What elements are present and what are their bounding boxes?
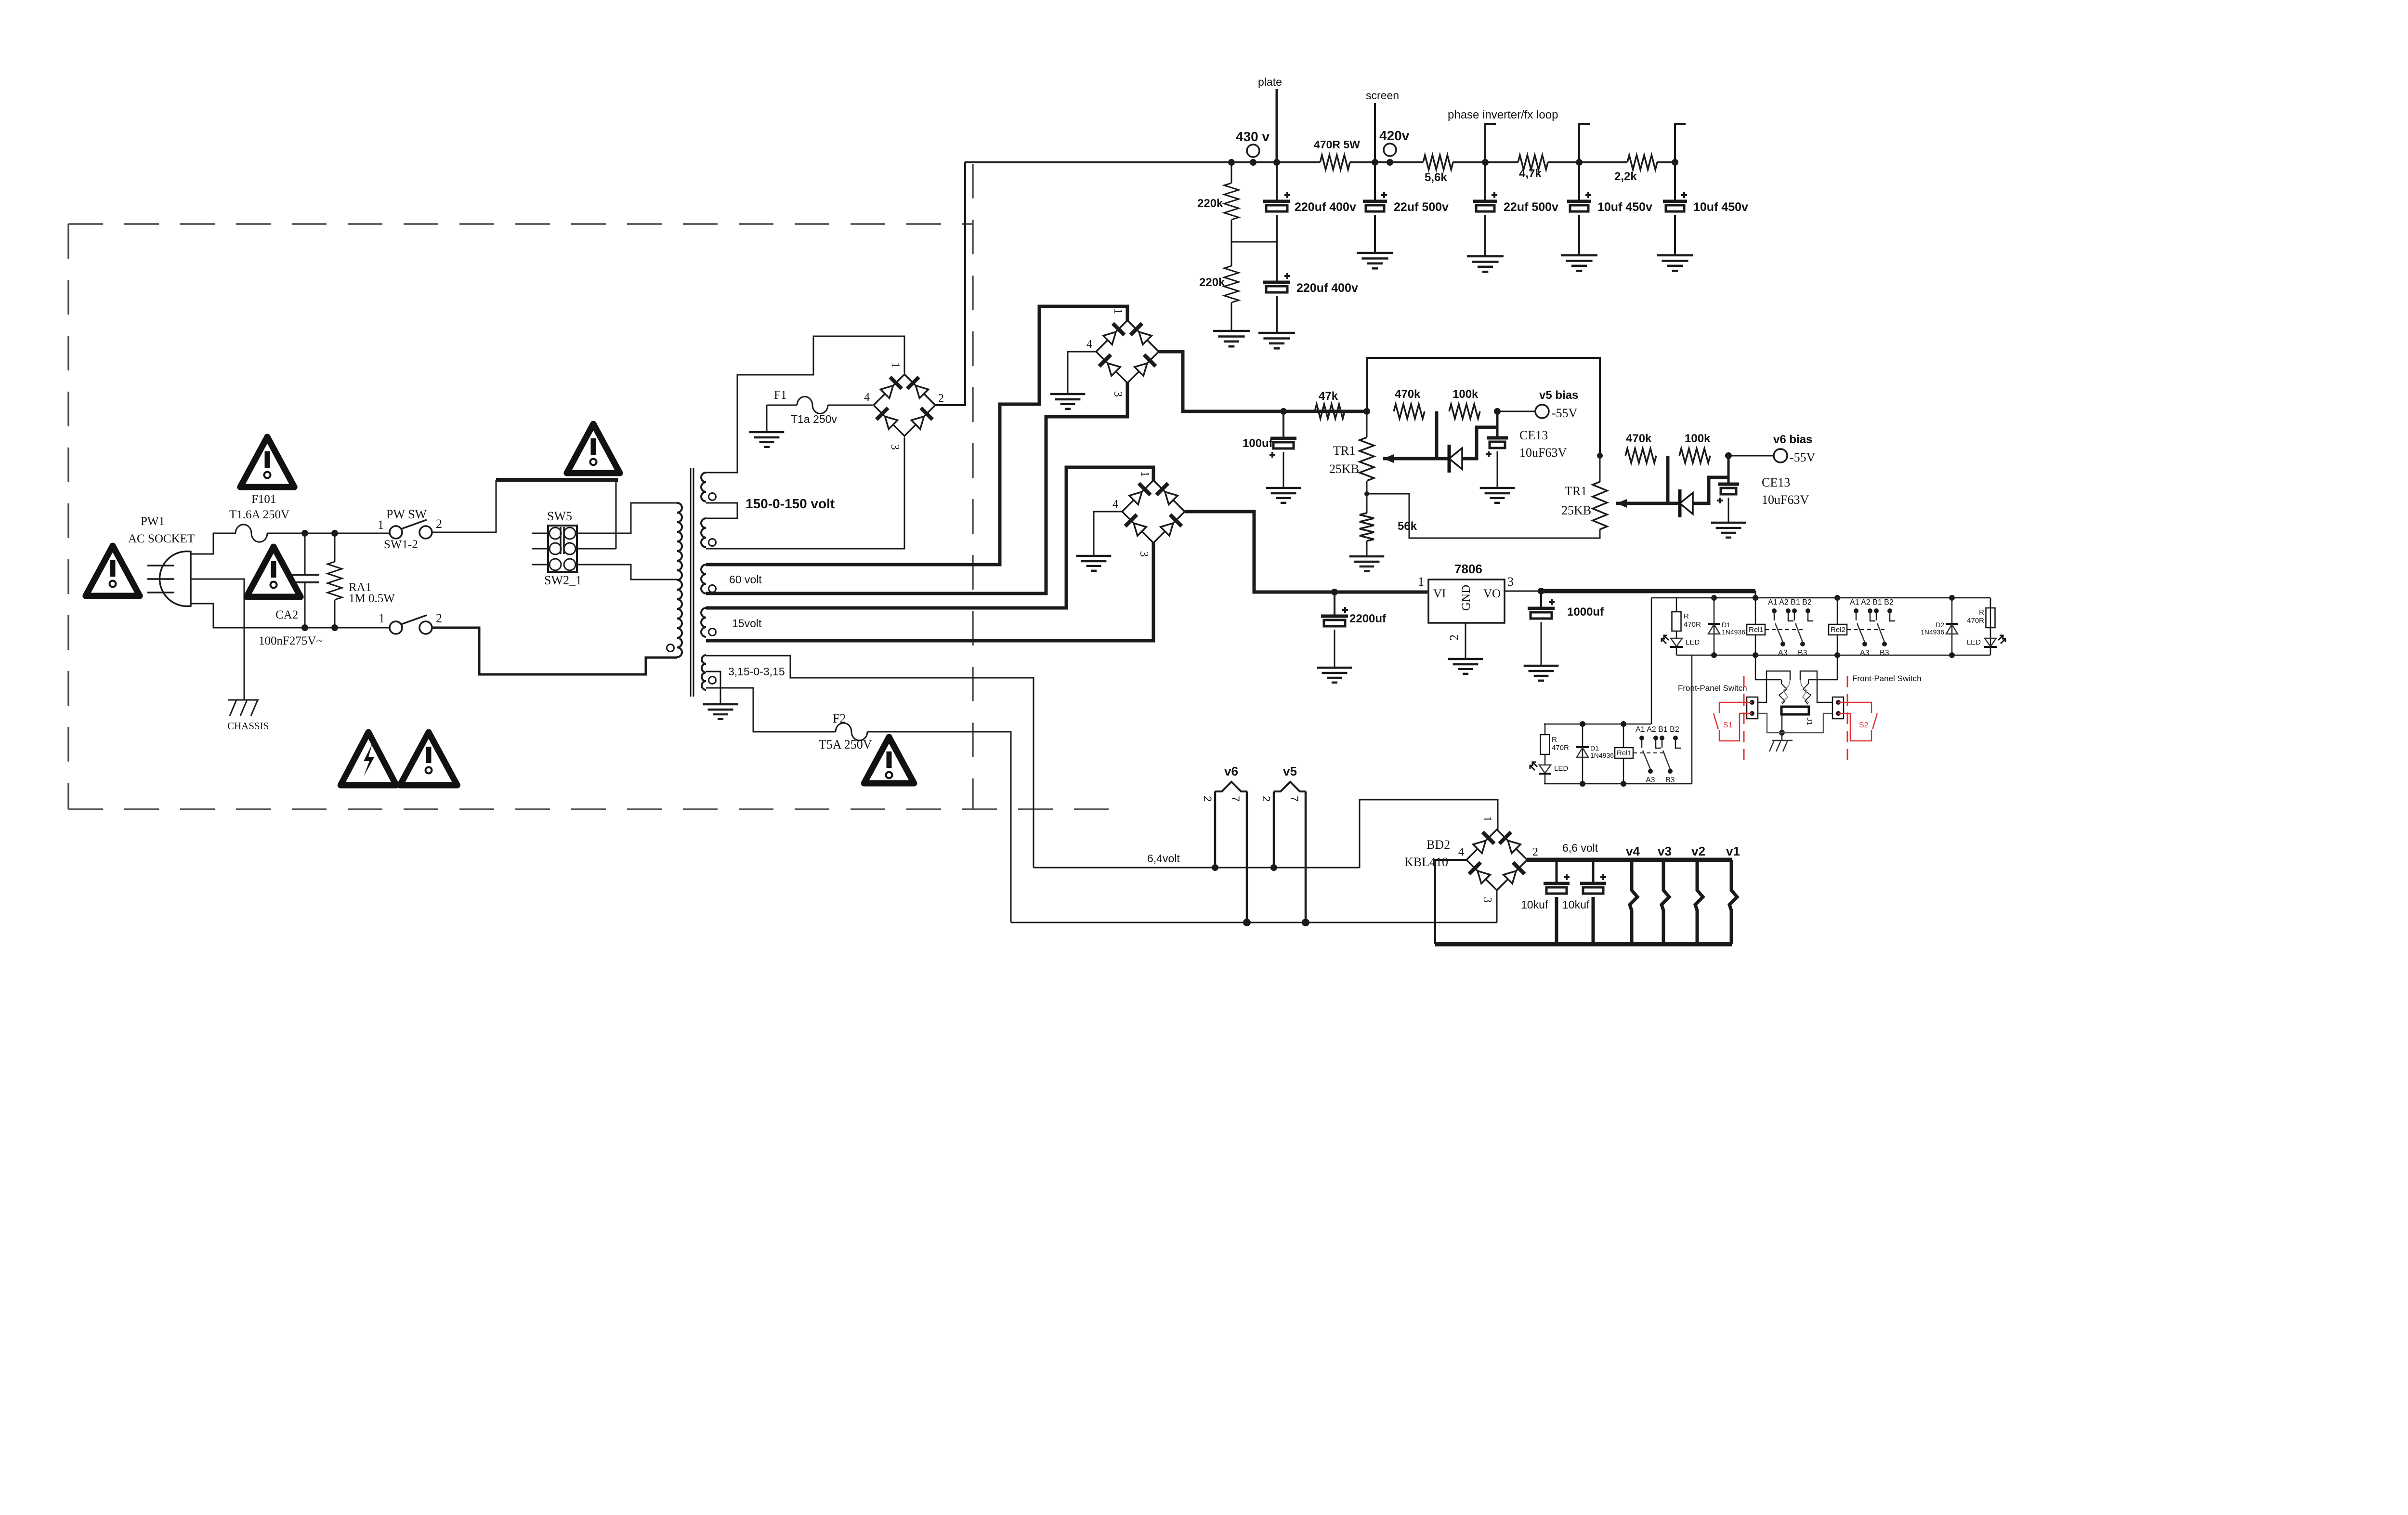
ground (node3 cap) [1561, 254, 1597, 257]
svg-text:PW SW: PW SW [386, 507, 427, 521]
svg-text:150-0-150 volt: 150-0-150 volt [746, 496, 835, 511]
dashed link Rel1 (lower) [1633, 752, 1664, 753]
diode D2 1N4936 [1951, 598, 1953, 655]
wire SW5 top pin to primary top [576, 503, 677, 533]
svg-text:KBL410: KBL410 [1404, 855, 1448, 869]
svg-text:420v: 420v [1379, 128, 1410, 143]
svg-text:CHASSIS: CHASSIS [227, 720, 269, 732]
wire BR3 pin2 to 7806 input [1185, 512, 1427, 592]
capacitor CE13 10uF63V (v5) [1496, 411, 1499, 438]
front panel switch S2 (red) [1838, 702, 1871, 713]
wire socket to fuse rail [191, 533, 236, 554]
relay coil Rel1 (lower cell) [1623, 724, 1624, 784]
TR1 wiper and thick link from divider [1383, 411, 1437, 459]
svg-text:v5: v5 [1283, 764, 1297, 778]
relay rail top edge [1651, 597, 1990, 599]
svg-text:1: 1 [1481, 816, 1493, 822]
svg-text:2: 2 [1447, 634, 1461, 641]
svg-text:1: 1 [1139, 471, 1151, 477]
svg-text:25KB: 25KB [1561, 503, 1591, 517]
TR1 v6 wiper thick link [1616, 456, 1668, 503]
phase inverter stub 1 [1485, 124, 1496, 162]
winding 3.15-0-3.15 [702, 655, 706, 690]
resistor 100k (v6) [1679, 448, 1710, 463]
resistor 470k (v5) [1394, 404, 1425, 419]
svg-text:J1: J1 [1805, 717, 1813, 725]
bridge rectifier BR1 [874, 374, 935, 436]
svg-text:2,2k: 2,2k [1614, 170, 1637, 183]
resistor 470R 5W [1320, 155, 1350, 170]
svg-text:SW5: SW5 [547, 509, 572, 523]
svg-text:T5A 250V: T5A 250V [819, 738, 872, 751]
svg-text:-55V: -55V [1552, 406, 1578, 420]
3.15 top wire to 6.4v heater line [706, 656, 1034, 868]
capacitor 220uf 400v (lower) [1276, 242, 1278, 282]
ground (CE13 v6) [1711, 522, 1746, 524]
resistor 220k (upper) [1231, 162, 1232, 183]
svg-text:2: 2 [1202, 796, 1214, 802]
svg-text:3: 3 [1112, 391, 1124, 397]
svg-text:2: 2 [436, 611, 442, 625]
wire bias supply to v6 row [1367, 358, 1600, 456]
svg-text:-55V: -55V [1790, 450, 1816, 464]
svg-text:220uf 400v: 220uf 400v [1295, 200, 1356, 214]
svg-text:7806: 7806 [1454, 562, 1482, 576]
svg-text:A1 A2 B1 B2: A1 A2 B1 B2 [1636, 725, 1679, 734]
svg-text:D1: D1 [1590, 744, 1599, 752]
wire 220k/220uf middle link [1231, 241, 1277, 243]
capacitor 2200uf [1334, 592, 1335, 616]
svg-text:430 v: 430 v [1236, 129, 1269, 144]
3.15 center tap to ground [706, 672, 720, 704]
ground (1000uf) [1524, 665, 1559, 667]
svg-text:S2: S2 [1859, 721, 1869, 729]
warning triangle (F2) [864, 737, 914, 783]
svg-text:220k: 220k [1199, 276, 1225, 289]
bridge rectifier BD2 KBL410 [1466, 830, 1527, 890]
capacitor 10uf 450v (node3) [1578, 162, 1580, 201]
60v bottom wire to BR2 pin3 [706, 382, 1127, 593]
bridge rectifier BR2 (60v bias) [1096, 320, 1159, 383]
svg-text:T1a 250v: T1a 250v [791, 413, 837, 425]
svg-text:v6: v6 [1224, 764, 1238, 778]
jack J1 barrel [1781, 707, 1809, 714]
svg-text:SW1-2: SW1-2 [384, 538, 418, 551]
ground (BR3) [1076, 555, 1112, 557]
svg-text:B3: B3 [1880, 649, 1889, 657]
ground (100uf) [1266, 487, 1301, 489]
svg-text:56k: 56k [1398, 520, 1417, 533]
sec1 top wire to F1 ground/bridge [706, 336, 904, 473]
sec1 center tap notch [706, 503, 737, 518]
60v top wire to BR2 pin1 [706, 306, 1127, 565]
420v test point [1384, 144, 1396, 156]
node screen [1374, 103, 1376, 162]
svg-text:10uf 450v: 10uf 450v [1693, 200, 1748, 214]
svg-text:BD2: BD2 [1426, 838, 1450, 852]
relay rail bottom edge [1676, 655, 1990, 656]
secondary 150-0-150 winding [701, 473, 706, 501]
svg-text:470k: 470k [1395, 388, 1421, 401]
wire top row to lower relay cell [1691, 655, 1693, 784]
svg-text:1000uf: 1000uf [1567, 606, 1604, 619]
svg-text:plate: plate [1258, 76, 1282, 88]
6.4 volt heater line [1034, 800, 1498, 868]
resistor 4,7k [1518, 155, 1548, 170]
svg-text:A3: A3 [1860, 649, 1870, 657]
15v top wire to BR3 pin1 [706, 467, 1153, 608]
ground (screen cap) [1357, 252, 1393, 254]
svg-text:1M 0.5W: 1M 0.5W [349, 592, 395, 605]
wire 56k junction to TR1 v6 bottom [1367, 494, 1600, 538]
svg-text:25KB: 25KB [1329, 462, 1359, 476]
warning triangle (CA2) [247, 547, 301, 597]
430 v test point [1247, 145, 1259, 157]
front panel switch S1 (red) [1719, 702, 1752, 713]
wire 7806 output [1505, 591, 1541, 592]
svg-text:3: 3 [889, 444, 901, 450]
LED (right) [1990, 628, 1991, 638]
diode D1 1N4936 (cell1) [1714, 598, 1715, 655]
capacitor CE13 10uF63V (v6) [1727, 456, 1730, 484]
ground (CE13 v5) [1480, 487, 1515, 489]
svg-text:A3: A3 [1646, 776, 1655, 784]
wire connector to spring riser (right) [1800, 671, 1832, 702]
resistor R 470R (right) [1990, 598, 1991, 608]
svg-text:3,15-0-3,15: 3,15-0-3,15 [728, 665, 785, 678]
svg-text:1N4936: 1N4936 [1722, 628, 1745, 636]
resistor 47k [1315, 404, 1345, 419]
svg-text:A1 A2 B1 B2: A1 A2 B1 B2 [1768, 598, 1812, 606]
AC socket PW1 [159, 552, 191, 606]
resistor R 470R (lower cell) [1544, 724, 1545, 735]
svg-text:470k: 470k [1626, 432, 1652, 445]
svg-text:GND: GND [1460, 585, 1473, 611]
connector (left, S1) [1747, 697, 1758, 719]
svg-text:D2: D2 [1936, 621, 1944, 629]
capacitor 10uf 450v (node4) [1674, 162, 1676, 201]
svg-text:v1: v1 [1726, 844, 1740, 858]
svg-text:1: 1 [379, 611, 385, 625]
svg-text:4,7k: 4,7k [1519, 167, 1542, 180]
fuse F101 T1.6A 250V [236, 525, 267, 542]
svg-text:10uF63V: 10uF63V [1762, 493, 1809, 507]
svg-text:LED: LED [1554, 764, 1568, 773]
wire to v6 bias terminal [1728, 455, 1773, 457]
wire F1 left to ground [766, 405, 768, 431]
svg-text:LED: LED [1967, 638, 1981, 646]
connector SW5 / SW2_1 [548, 526, 577, 572]
diode (v5 bias) [1437, 457, 1449, 461]
capacitor 10kuf (2) [1592, 860, 1595, 883]
svg-text:100nF275V~: 100nF275V~ [259, 634, 323, 647]
wire BR3 pin4 to ground [1094, 512, 1122, 555]
relay rail right edge [1990, 598, 1991, 655]
bridge rectifier BR3 (15v) [1122, 480, 1185, 543]
svg-text:AC SOCKET: AC SOCKET [128, 532, 195, 545]
wire SW5 bottom pin to primary tap [576, 565, 677, 580]
resistor 5,6k [1423, 155, 1453, 170]
svg-text:470R 5W: 470R 5W [1314, 138, 1360, 151]
resistor 56k [1366, 481, 1368, 513]
ground (3.15 tap) [703, 703, 738, 705]
svg-text:LED: LED [1686, 638, 1700, 646]
primary winding [677, 503, 682, 657]
wire Rel2 coil to jack switch [1808, 655, 1837, 680]
svg-text:screen: screen [1366, 89, 1399, 102]
svg-text:470R: 470R [1552, 744, 1569, 752]
warning triangle (AC socket) [86, 546, 140, 596]
svg-text:v3: v3 [1658, 844, 1672, 858]
wire PW SW pin2 to SW5 feed [432, 480, 496, 532]
ground (220uf) [1258, 332, 1295, 334]
svg-text:v2: v2 [1691, 844, 1705, 858]
svg-text:SW2_1: SW2_1 [544, 573, 582, 587]
mains enclosure dashed box [68, 164, 1112, 809]
svg-text:10uF63V: 10uF63V [1519, 446, 1567, 460]
3.15 bottom wire to fuse F2 [706, 688, 836, 732]
svg-text:Rel1: Rel1 [1617, 749, 1632, 757]
ground (7806) [1448, 658, 1483, 660]
svg-text:1: 1 [1112, 308, 1124, 314]
wire fuse to switch [267, 533, 390, 534]
resistor R 470R (cell1) [1676, 598, 1677, 612]
svg-text:F1: F1 [774, 389, 786, 402]
svg-text:CE13: CE13 [1762, 475, 1790, 489]
svg-text:22uf 500v: 22uf 500v [1394, 200, 1449, 214]
lower relay cell bottom edge [1544, 783, 1692, 785]
J1 sleeve to ground [1781, 714, 1783, 733]
resistor RA1 1M 0.5W [334, 533, 336, 562]
svg-text:F2: F2 [833, 711, 846, 725]
capacitor 1000uf [1540, 591, 1542, 608]
connector (right, S2) [1832, 697, 1844, 719]
LED (lower cell) [1544, 754, 1546, 765]
ground (node2 cap) [1467, 255, 1504, 258]
wire F2 to heater return line [867, 732, 1011, 922]
red dashed panel dividers [1743, 676, 1745, 760]
relay coil Rel1 [1755, 598, 1756, 655]
svg-text:B3: B3 [1665, 776, 1675, 784]
svg-text:4: 4 [864, 391, 870, 404]
svg-text:220k: 220k [1197, 197, 1223, 210]
heater return line [1011, 922, 1497, 923]
svg-text:2: 2 [1532, 846, 1538, 858]
svg-text:3: 3 [1138, 551, 1150, 557]
HT rail 430v [965, 161, 1320, 163]
lower relay cell top edge [1544, 724, 1651, 725]
svg-text:4: 4 [1112, 498, 1118, 511]
svg-text:1: 1 [889, 362, 902, 368]
svg-text:10kuf: 10kuf [1562, 898, 1590, 911]
svg-text:Rel2: Rel2 [1831, 626, 1845, 634]
jack switch spring (right) [1803, 680, 1811, 704]
wire lower switch pin2 to primary bottom [432, 628, 677, 674]
ground (56k) [1349, 555, 1385, 557]
resistor 2,2k [1627, 155, 1657, 170]
DC return bottom line [1435, 942, 1732, 947]
sec1 bottom wire to bridge BR1 pin3 [706, 437, 904, 549]
svg-text:D1: D1 [1722, 621, 1730, 629]
dashed link Rel2 [1847, 629, 1885, 630]
node dots top rail [301, 530, 308, 537]
svg-text:1: 1 [1418, 575, 1424, 589]
svg-text:5,6k: 5,6k [1425, 171, 1447, 184]
svg-text:15volt: 15volt [732, 617, 762, 630]
svg-text:S1: S1 [1723, 721, 1733, 729]
svg-text:2: 2 [436, 517, 442, 531]
LED (cell1) [1676, 631, 1677, 638]
switch PW SW SW1-2 (upper) [390, 526, 402, 539]
diode D1 1N4936 (lower cell) [1582, 724, 1584, 784]
svg-text:4: 4 [1086, 338, 1092, 351]
lower rail [305, 627, 390, 629]
phase inverter stub 3 [1675, 124, 1686, 162]
svg-text:6,4volt: 6,4volt [1147, 852, 1180, 865]
wire SW5 middle pin [576, 548, 616, 550]
svg-text:1: 1 [378, 518, 384, 532]
svg-text:100uf: 100uf [1243, 437, 1273, 450]
ground (node4 cap) [1657, 254, 1693, 257]
node plate [1276, 89, 1278, 162]
regulator 7806 [1428, 580, 1505, 623]
svg-text:220uf 400v: 220uf 400v [1296, 281, 1358, 295]
svg-text:v4: v4 [1626, 844, 1640, 858]
BD2 pin3 wire to heater return [1496, 890, 1498, 922]
svg-text:v5 bias: v5 bias [1539, 389, 1578, 402]
svg-text:T1.6A 250V: T1.6A 250V [229, 508, 289, 521]
resistor 470k (v6) [1625, 448, 1656, 463]
ground (F1) [749, 431, 785, 433]
wire socket middle to chassis [191, 579, 244, 700]
svg-text:7: 7 [1288, 796, 1300, 802]
capacitor CA2 100nF275V [304, 533, 306, 575]
svg-text:Front-Panel Switch: Front-Panel Switch [1678, 684, 1747, 693]
potentiometer TR1 25KB (v5) [1366, 411, 1368, 437]
resistor 100k (v5) [1449, 404, 1480, 419]
wire to v5 bias terminal [1497, 411, 1535, 412]
svg-text:A3: A3 [1778, 649, 1788, 657]
svg-text:2200uf: 2200uf [1349, 612, 1387, 625]
svg-text:F101: F101 [251, 493, 276, 506]
svg-text:60 volt: 60 volt [729, 573, 762, 586]
svg-text:R: R [1684, 612, 1689, 620]
svg-text:VO: VO [1483, 587, 1501, 600]
fuse F1 T1a 250v [767, 405, 797, 406]
svg-text:phase inverter/fx loop: phase inverter/fx loop [1448, 108, 1558, 121]
svg-text:1N4936: 1N4936 [1590, 751, 1614, 759]
capacitor 220uf 400v (upper) [1276, 162, 1278, 201]
7806 pin2 to ground [1465, 623, 1466, 658]
phase inverter stub 2 [1579, 124, 1590, 162]
capacitor 100uf [1283, 411, 1284, 438]
ground (2200uf) [1317, 667, 1352, 669]
svg-text:6,6 volt: 6,6 volt [1562, 842, 1598, 854]
wire BR2 pin4 to ground [1068, 352, 1096, 393]
svg-text:3: 3 [1481, 897, 1493, 903]
svg-text:TR1: TR1 [1565, 484, 1587, 498]
wire BR1 pin2 to HT rail [935, 162, 965, 405]
ground (BR2) [1050, 393, 1086, 395]
winding 60 volt [701, 565, 706, 593]
svg-text:VI: VI [1433, 587, 1446, 600]
svg-text:CA2: CA2 [275, 608, 298, 621]
svg-text:4: 4 [1458, 846, 1464, 858]
potentiometer TR1 25KB (v6) [1593, 482, 1607, 529]
svg-text:10uf 450v: 10uf 450v [1597, 200, 1652, 214]
wire Rel1 coil to jack switch [1755, 655, 1781, 680]
svg-text:CE13: CE13 [1519, 428, 1548, 442]
wire connector to spring riser (left) [1758, 671, 1790, 702]
6.6 volt DC line [1527, 858, 1732, 862]
svg-text:PW1: PW1 [141, 515, 165, 528]
transformer T1 core [690, 468, 692, 697]
svg-text:100k: 100k [1453, 388, 1479, 401]
svg-text:Rel1: Rel1 [1749, 626, 1764, 634]
chassis ground [228, 699, 259, 701]
15v bottom wire to BR3 pin3 [706, 542, 1153, 641]
BD2 pin4 wire to DC return bus [1435, 860, 1466, 944]
diode (v6 bias) [1668, 502, 1680, 505]
warning triangle (SW5) [567, 424, 620, 473]
svg-text:47k: 47k [1319, 390, 1338, 403]
warning triangle (lightning, bottom) [340, 732, 396, 785]
warning triangle (F101) [240, 437, 294, 487]
svg-text:7: 7 [1230, 796, 1242, 802]
warning triangle (bottom) [400, 732, 458, 785]
resistor 220k (lower) [1231, 242, 1232, 266]
chassis ground (J1) [1772, 740, 1793, 741]
svg-text:R: R [1979, 608, 1984, 617]
svg-text:10kuf: 10kuf [1521, 898, 1548, 911]
svg-text:TR1: TR1 [1333, 444, 1355, 458]
svg-text:B3: B3 [1798, 649, 1807, 657]
wire BR2 pin2 to bias node [1159, 352, 1367, 411]
svg-text:1N4936: 1N4936 [1921, 628, 1944, 636]
wire socket bottom to lower rail [191, 604, 305, 628]
svg-text:2: 2 [1260, 796, 1272, 802]
dashed link Rel1 [1765, 629, 1803, 630]
svg-text:22uf 500v: 22uf 500v [1504, 200, 1558, 214]
svg-text:3: 3 [1507, 575, 1514, 589]
capacitor 10kuf (1) [1556, 860, 1558, 883]
svg-text:2: 2 [938, 392, 944, 405]
svg-text:A1 A2 B1 B2: A1 A2 B1 B2 [1850, 598, 1894, 606]
svg-text:470R: 470R [1684, 620, 1701, 629]
relay rail left edge down to lower cell [1651, 598, 1652, 724]
svg-text:100k: 100k [1685, 432, 1711, 445]
fuse F2 T5A 250V [836, 723, 867, 740]
ground (220k) [1213, 330, 1250, 332]
svg-text:Front-Panel Switch: Front-Panel Switch [1852, 674, 1922, 683]
sleeve bus [1758, 713, 1832, 733]
switch SW2 (lower) [390, 621, 402, 634]
svg-text:470R: 470R [1967, 617, 1984, 625]
capacitor 22uf 500v (node2) [1484, 162, 1486, 201]
jack switch spring (left) [1779, 680, 1787, 704]
capacitor 22uf 500v (screen) [1374, 162, 1376, 201]
svg-text:R: R [1552, 736, 1557, 744]
winding 15 volt [701, 608, 706, 637]
svg-text:v6 bias: v6 bias [1773, 433, 1812, 446]
relay coil Rel2 [1837, 598, 1838, 655]
SW5 left pin stubs [532, 533, 550, 534]
